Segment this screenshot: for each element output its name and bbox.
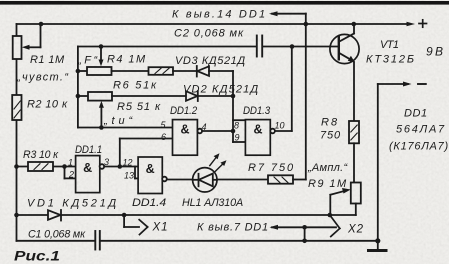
ground (375, 238, 380, 243)
junction: diode bus / VD2 row (231, 94, 236, 99)
junction: left rail / VD1 row (14, 213, 19, 218)
resistor R3 (28, 162, 53, 171)
wire: DD1.2 output (202, 130, 233, 132)
wire: DD1.3 output riser to base node (275, 130, 292, 132)
minus sign (418, 83, 426, 85)
wire: arrow to DD1 pin 7 (272, 226, 305, 228)
diode VD3 (173, 70, 197, 72)
gate DD1.4 (138, 157, 162, 194)
junction: pin7 line to ground line (302, 225, 307, 230)
capacitor C2 (256, 36, 258, 57)
connector X1 (123, 215, 125, 227)
resistor R2 (12, 95, 21, 120)
wire: DD1.2 pin5 row (78, 127, 173, 129)
junction: "F" wiper on C2 row (99, 44, 104, 49)
junction: R9 node (328, 213, 333, 218)
junction: R7 riser on top rail (304, 22, 309, 27)
plus terminal arrow (407, 22, 416, 27)
transistor VT1 (330, 34, 359, 63)
wire: sub rail of timing network (77, 47, 79, 128)
potentiometer "F" (78, 70, 87, 72)
resistor R8 (349, 121, 359, 143)
wire: R1 wiper to top rail (27, 46, 41, 48)
LED emission arrows (210, 156, 217, 165)
wire: VD1 row to R9 (61, 214, 356, 216)
diode VD1 (48, 210, 61, 220)
capacitor C1 (94, 231, 96, 250)
minus terminal arrow (403, 82, 412, 87)
wire: C2 row to VT1 base (78, 46, 256, 48)
junction: X1 tap (122, 213, 127, 218)
potentiometer "tu" (R5) (78, 95, 88, 97)
wire: R9 bottom lead (355, 204, 357, 216)
junction: VT1 base node (290, 44, 295, 49)
wire: +9V top supply rail (17, 23, 408, 25)
junction: diode bus / DD1.2 output (231, 129, 236, 134)
gate DD1.1 (76, 156, 100, 193)
wire: R8 to R9 (353, 143, 355, 182)
wire: VD1 / X1 / R9 row (17, 214, 49, 216)
resistor R4 (112, 70, 149, 72)
junction: sub rail / R4 row (76, 69, 81, 74)
wire: R3 row (17, 166, 76, 168)
wire: "tu" wiper (100, 104, 102, 128)
LED HL1 (193, 168, 217, 192)
wire: DD1.2 pin6 link (120, 138, 173, 140)
wire: right minus bus (377, 84, 379, 241)
wire: R9 wiper (330, 190, 347, 195)
plus sign (419, 23, 427, 25)
wire: DD1.1 out to DD1.4 inputs (104, 166, 138, 168)
resistor R1 potentiometer body (13, 36, 22, 59)
junction: "tu" wiper on pin5 row (99, 125, 104, 130)
junction: pin7 drop on ground line (302, 239, 307, 244)
wire: DD1.3 input stubs (233, 119, 245, 121)
wire: DD1.1 pin2 link (64, 167, 66, 179)
wire: R7 riser (305, 14, 307, 180)
junction: pin6 link on DD1.1 output (118, 164, 123, 169)
junction: DD1.1 input tie (62, 164, 67, 169)
junction: left rail / R3 row (14, 164, 19, 169)
wire: left rail (16, 24, 18, 241)
gate DD1.3 (245, 120, 270, 156)
connector X2 (305, 226, 336, 228)
gate DD1.2 (173, 120, 198, 156)
diode VD2 (112, 95, 186, 97)
junction: R1 wiper on top rail (39, 22, 44, 27)
junction: sub rail / R5 row (76, 94, 81, 99)
wire: R7 to riser (293, 179, 306, 181)
top scan frame bar (0, 1, 449, 5)
wire: diode bus vertical (232, 71, 234, 142)
wire: VT1 emitter to R8 (353, 62, 355, 121)
wire: LED row (167, 179, 268, 181)
wire: bottom ground line (17, 240, 96, 242)
wire: arrow to DD1 pin 14 (272, 13, 306, 15)
wire: "F" wiper (100, 47, 102, 62)
resistor R7 (268, 175, 293, 183)
potentiometer R9 (351, 183, 361, 204)
